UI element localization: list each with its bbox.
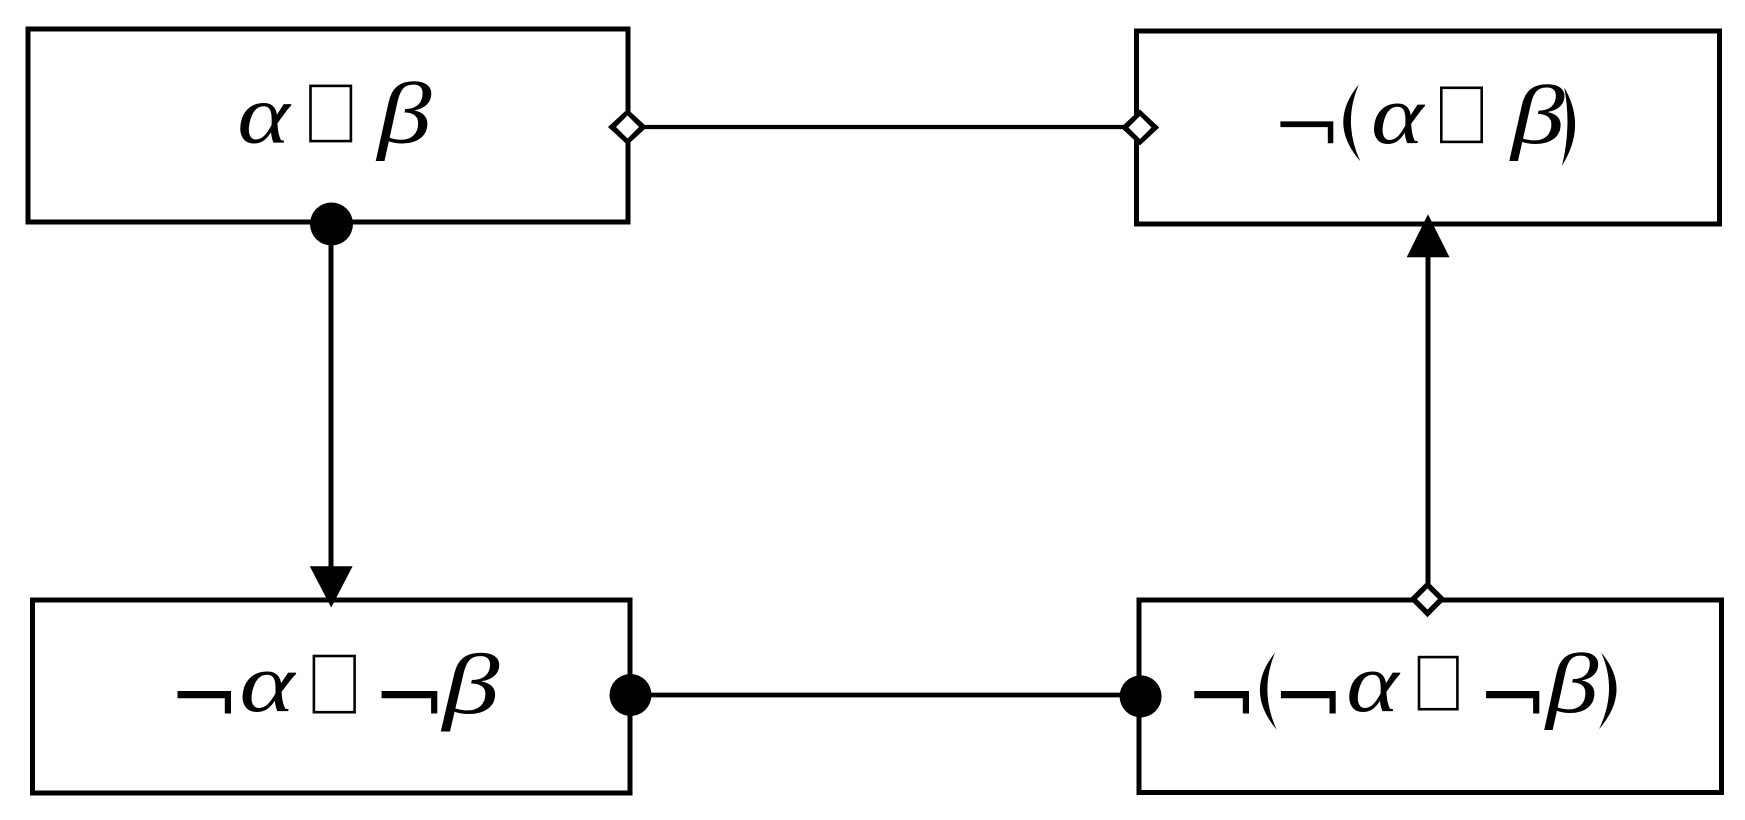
svg-text:β: β bbox=[440, 637, 499, 732]
arrowhead up into box2 bottom edge bbox=[1407, 214, 1450, 257]
node box3 (bottom-left): not-alpha-box-not-beta bbox=[33, 600, 631, 793]
node box4 (bottom-right): not(not-alpha-box-not-beta) bbox=[1139, 600, 1722, 793]
node box2 (top-right): not(alpha-box-beta) bbox=[1137, 31, 1720, 224]
open diamond terminal on box4 top edge bbox=[1409, 581, 1445, 617]
svg-text:α: α bbox=[1346, 637, 1400, 729]
wire top horizontal connector box1-box2 bbox=[628, 125, 1137, 129]
label box4 "¬(¬α □ ¬β)" bbox=[1194, 637, 1616, 731]
wire right vertical connector box4-box2 bbox=[1426, 257, 1431, 585]
wire bottom horizontal connector box3-box4 bbox=[630, 693, 1139, 698]
wire left vertical connector box1-box3 bbox=[329, 222, 334, 570]
svg-text:β: β bbox=[1544, 637, 1599, 731]
filled circle terminal on box4 left edge bbox=[1120, 675, 1162, 717]
svg-text:β: β bbox=[1509, 69, 1565, 162]
filled circle terminal on box1 bottom edge bbox=[310, 203, 353, 246]
node box1 (top-left): alpha-box-beta bbox=[28, 29, 628, 222]
arrowhead down into box3 top edge bbox=[310, 566, 353, 607]
label box2 "¬(α □ β)" bbox=[1280, 69, 1575, 166]
svg-text:β: β bbox=[375, 66, 431, 162]
svg-text:α: α bbox=[237, 68, 291, 160]
open diamond terminal on box1 right edge bbox=[608, 109, 647, 145]
label box1 "α □ β" bbox=[237, 66, 431, 162]
filled circle terminal on box3 right edge bbox=[610, 674, 652, 716]
open diamond terminal on box2 left edge bbox=[1121, 110, 1160, 146]
svg-text:α: α bbox=[1371, 69, 1425, 161]
label box3 "¬α □ ¬β" bbox=[178, 637, 500, 732]
svg-text:α: α bbox=[239, 638, 297, 729]
